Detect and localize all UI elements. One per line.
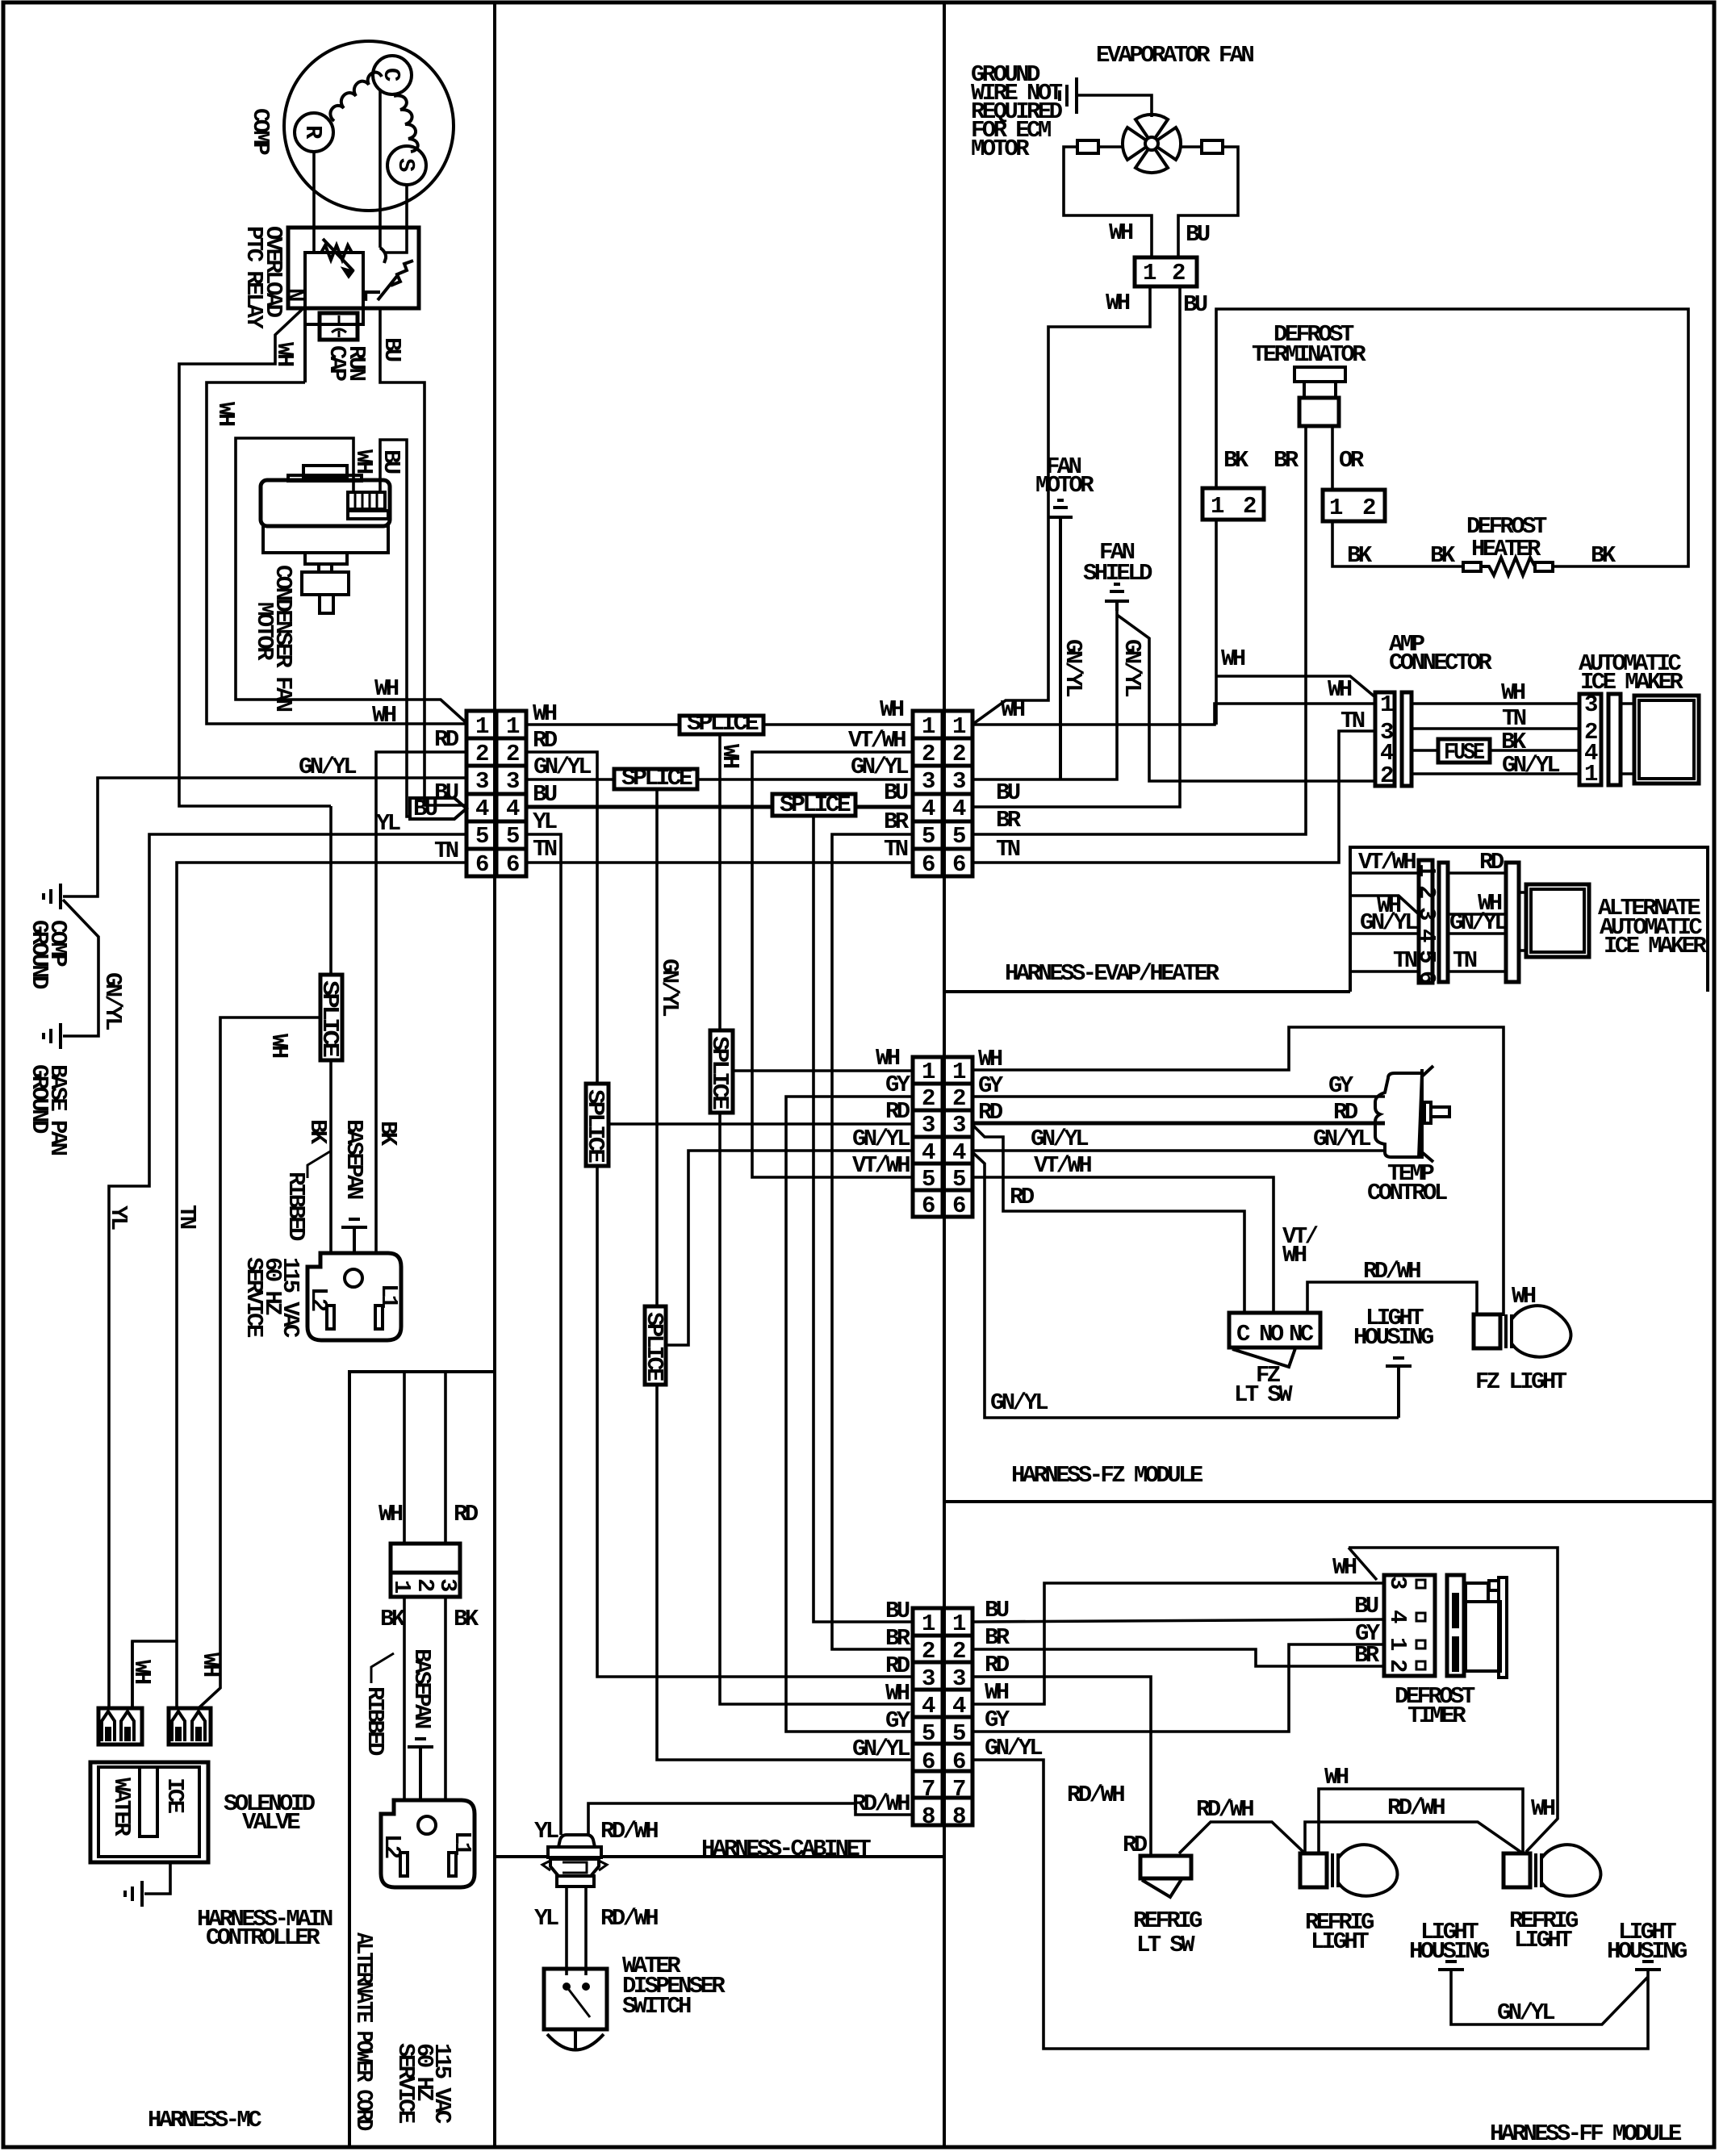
svg-text:5: 5	[1413, 950, 1440, 963]
wire GY FZ pin2 to temp control	[972, 1095, 1385, 1098]
plug screw hole	[345, 1269, 362, 1287]
solenoid valve outer box	[90, 1762, 208, 1862]
svg-text:HARNESS-MC: HARNESS-MC	[148, 2107, 261, 2133]
svg-text:SPLICE: SPLICE	[582, 1089, 609, 1163]
alt plug screw hole	[418, 1816, 436, 1834]
heater 2-pin connector right	[1323, 490, 1385, 521]
svg-text:BK: BK	[1223, 447, 1249, 474]
alt ice maker connector strip	[1419, 860, 1432, 983]
svg-text:BK: BK	[1347, 542, 1373, 569]
svg-text:GN/YL: GN/YL	[990, 1389, 1048, 1416]
condenser fan motor terminal block	[348, 492, 385, 509]
wire plugA right pin	[131, 1641, 134, 1708]
svg-text:REFRIG: REFRIG	[1133, 1907, 1202, 1934]
svg-text:TN: TN	[996, 836, 1020, 863]
basepan ground mark	[349, 1218, 360, 1221]
splice WH vertical	[710, 1030, 733, 1113]
svg-text:BU: BU	[533, 781, 557, 808]
plug connector A	[98, 1708, 142, 1744]
alt ice maker stubs	[1519, 891, 1526, 894]
svg-text:BR: BR	[996, 807, 1022, 834]
wire BK heater loop	[1216, 309, 1688, 566]
AMP connector strip	[1375, 692, 1395, 786]
wire WH condenser loop	[236, 438, 466, 723]
svg-text:BU: BU	[885, 1598, 910, 1624]
condenser fan motor plate	[288, 475, 362, 481]
svg-text:RD: RD	[533, 727, 558, 754]
fan shield ground symbol	[1114, 583, 1120, 586]
svg-text:RD/WH: RD/WH	[1196, 1796, 1253, 1823]
svg-text:5: 5	[922, 1166, 935, 1193]
splice RD vertical	[586, 1084, 609, 1166]
defrost heater resistor	[1535, 562, 1553, 571]
svg-text:L2: L2	[379, 1834, 405, 1858]
svg-text:WH: WH	[372, 702, 396, 729]
wire GN/YL shield to row3	[972, 611, 1117, 779]
svg-text:5: 5	[952, 1720, 965, 1747]
svg-text:RIBBED: RIBBED	[282, 1172, 309, 1241]
svg-text:WH: WH	[1109, 219, 1133, 246]
solenoid ground wire	[144, 1862, 170, 1894]
svg-text:GN/YL: GN/YL	[1502, 752, 1559, 779]
wire BK alt left	[403, 1597, 406, 1800]
fan left resistor	[1077, 140, 1098, 153]
svg-text:RD/WH: RD/WH	[852, 1790, 910, 1817]
refrig light switch box	[1140, 1856, 1191, 1878]
svg-text:SPLICE: SPLICE	[780, 792, 851, 818]
svg-text:BU: BU	[378, 449, 404, 474]
svg-text:L2: L2	[305, 1287, 332, 1311]
svg-text:HARNESS-CABINET: HARNESS-CABINET	[701, 1836, 871, 1862]
spade terminal	[172, 1711, 185, 1741]
wire TN branch to plug A	[132, 1641, 177, 1708]
wire BU condenser	[380, 440, 410, 817]
wire R terminal down	[312, 152, 316, 253]
wire BK alt right	[444, 1597, 447, 1800]
wire WH relay inner down-left	[303, 324, 307, 339]
svg-text:BK: BK	[1591, 542, 1617, 569]
svg-text:3: 3	[475, 768, 488, 795]
wire WH AMP to ice maker	[1412, 702, 1579, 705]
svg-text:BU: BU	[1354, 1593, 1378, 1619]
wire RD	[1448, 871, 1506, 875]
wire RD/WH FF pin8 to dispenser	[588, 1803, 913, 1835]
svg-text:MOTOR: MOTOR	[1035, 472, 1094, 499]
svg-text:WH: WH	[978, 1046, 1002, 1072]
wire WH fan to C2 pin1	[973, 286, 1150, 724]
svg-text:GN/YL: GN/YL	[852, 1126, 910, 1152]
svg-text:GY: GY	[1328, 1072, 1354, 1099]
wire C terminal down	[379, 90, 382, 248]
evaporator fan symbol	[1145, 137, 1158, 150]
svg-text:LT SW: LT SW	[1136, 1932, 1195, 1958]
svg-text:GN/YL: GN/YL	[1031, 1126, 1088, 1152]
svg-text:GROUND: GROUND	[26, 1064, 52, 1134]
svg-text:WH: WH	[212, 402, 239, 426]
svg-text:TIMER: TIMER	[1407, 1703, 1466, 1729]
svg-text:YL: YL	[105, 1205, 132, 1230]
PTC arrow	[323, 239, 353, 271]
fuse box	[1438, 739, 1490, 763]
plug prong L1	[375, 1306, 383, 1329]
wire WH row1 to C2 with splice	[526, 723, 680, 726]
svg-text:NO: NO	[1259, 1321, 1284, 1347]
wire S terminal down	[386, 185, 407, 253]
svg-text:RD/WH: RD/WH	[1067, 1782, 1124, 1808]
wire WH timer upper branch	[1349, 1548, 1558, 1852]
wire RD row2 drop	[526, 752, 597, 1084]
main power cord plug	[307, 1253, 401, 1340]
wire BK heater to connector	[1332, 521, 1463, 566]
svg-text:GN/YL: GN/YL	[1497, 1999, 1554, 2026]
svg-text:GN/YL: GN/YL	[851, 754, 908, 780]
relay inner box	[305, 253, 363, 324]
wire RD/WH light1 to light2	[1305, 1822, 1523, 1853]
wire GN/YL	[1448, 932, 1506, 935]
wire TN	[1448, 970, 1506, 973]
svg-text:RD: RD	[985, 1652, 1010, 1678]
svg-text:GN/YL: GN/YL	[299, 754, 356, 780]
wire GN/YL AMP to ice maker	[1412, 772, 1579, 775]
AMP mating strip	[1402, 692, 1412, 786]
wire RD splice to FZ pin3	[609, 1122, 913, 1126]
svg-text:SPLICE: SPLICE	[706, 1036, 733, 1109]
wire RD down to FF pin3	[597, 1166, 913, 1677]
svg-text:2: 2	[922, 1085, 935, 1112]
svg-text:2: 2	[506, 741, 519, 767]
wire RD/WH to switch	[584, 1886, 588, 1975]
wire RD alt cord	[444, 1372, 447, 1544]
connector main 6-pin C1	[466, 711, 526, 876]
svg-text:SPLICE: SPLICE	[641, 1312, 667, 1381]
svg-text:RD: RD	[1333, 1099, 1358, 1126]
svg-text:LIGHT: LIGHT	[1311, 1928, 1369, 1955]
svg-text:6: 6	[922, 1193, 935, 1219]
svg-text:GN/YL: GN/YL	[1360, 909, 1417, 936]
svg-text:RD: RD	[1010, 1184, 1035, 1210]
svg-text:RIBBED: RIBBED	[362, 1686, 388, 1756]
compressor terminal R	[295, 113, 333, 152]
wire VT/WH C2 pin2	[752, 752, 913, 1177]
svg-text:WH: WH	[876, 1045, 900, 1072]
svg-text:L1: L1	[449, 1831, 475, 1856]
wire WH FZ pin1 to FZ light	[972, 1027, 1504, 1316]
svg-text:MOTOR: MOTOR	[251, 602, 278, 661]
condenser fan motor cap	[303, 466, 347, 478]
svg-text:BK: BK	[380, 1606, 406, 1632]
svg-text:FZ LIGHT: FZ LIGHT	[1475, 1368, 1567, 1395]
wire GN/YL FZ pin4 to temp control	[972, 1149, 1385, 1152]
wire RD FZ pin3 branch to switch	[972, 1125, 1244, 1313]
svg-text:COMP: COMP	[247, 108, 274, 155]
svg-text:WH: WH	[533, 700, 557, 727]
svg-text:RD: RD	[885, 1098, 910, 1125]
plug connector B	[169, 1708, 211, 1744]
svg-text:WH: WH	[379, 1501, 403, 1527]
svg-text:BU: BU	[996, 779, 1020, 806]
svg-text:LIGHT: LIGHT	[1514, 1927, 1572, 1953]
svg-text:BASEPAN: BASEPAN	[408, 1648, 435, 1728]
svg-text:TN: TN	[1453, 947, 1477, 974]
alt plug prong L2	[400, 1853, 408, 1876]
svg-text:3: 3	[1413, 907, 1440, 920]
svg-text:3: 3	[506, 768, 519, 795]
wire WH down to FF pin4	[720, 1113, 913, 1704]
svg-text:2: 2	[1413, 885, 1440, 898]
svg-text:WH: WH	[266, 1034, 292, 1058]
wire YL to switch	[565, 1886, 568, 1975]
svg-text:CONNECTOR: CONNECTOR	[1389, 650, 1492, 676]
svg-text:WH: WH	[350, 449, 377, 474]
wire RD FF pin3 to refrig switch	[972, 1677, 1151, 1856]
svg-text:BU: BU	[434, 779, 458, 806]
svg-text:SWITCH: SWITCH	[622, 1993, 691, 2020]
svg-text:7: 7	[922, 1776, 935, 1803]
ribbed bracket alt	[371, 1653, 394, 1683]
svg-text:GN/YL: GN/YL	[852, 1736, 910, 1762]
svg-text:RD/WH: RD/WH	[1363, 1258, 1420, 1285]
svg-text:6: 6	[922, 1749, 935, 1775]
wire RD FZ pin3 to temp control	[972, 1122, 1385, 1126]
svg-text:GN/YL: GN/YL	[985, 1735, 1042, 1761]
ice maker connector	[1579, 694, 1601, 785]
svg-text:EVAPORATOR FAN: EVAPORATOR FAN	[1096, 42, 1253, 69]
solenoid valve slot	[140, 1767, 157, 1836]
wire YL row5 to water dispenser	[526, 834, 561, 1835]
refrig light 1 bulb	[1300, 1853, 1327, 1887]
wire GN/YL down to FF pin6	[657, 1385, 913, 1760]
svg-text:3: 3	[434, 1578, 461, 1591]
wire WH alt cord	[403, 1372, 406, 1544]
wire RD/WH switch to FZ light	[1307, 1282, 1477, 1316]
water dispenser connector bell	[558, 1835, 595, 1847]
wire BU fan to C2 pin4	[972, 286, 1180, 807]
column divider left/middle	[493, 2, 496, 2147]
svg-text:CAP: CAP	[324, 345, 350, 382]
compressor run winding coil	[330, 73, 382, 121]
svg-text:RD/WH: RD/WH	[600, 1818, 658, 1845]
svg-text:3: 3	[1584, 692, 1597, 718]
wire BK connector to AMP	[1215, 520, 1218, 725]
svg-text:GY: GY	[885, 1072, 911, 1098]
svg-text:GN/YL: GN/YL	[1119, 639, 1145, 696]
svg-text:ALTERNATE POWER CORD: ALTERNATE POWER CORD	[350, 1932, 377, 2131]
svg-text:6: 6	[922, 851, 935, 878]
wire GN/YL ground jumper	[63, 900, 98, 1036]
alt plug prong L1	[449, 1853, 456, 1876]
svg-text:TERMINATOR: TERMINATOR	[1252, 341, 1366, 368]
svg-text:RD/WH: RD/WH	[1387, 1795, 1445, 1821]
svg-text:SERVICE: SERVICE	[392, 2043, 419, 2124]
svg-text:FUSE: FUSE	[1444, 739, 1485, 766]
svg-text:2: 2	[1243, 493, 1256, 520]
wire GN/YL FF pin6 to housing2	[972, 1760, 1648, 2049]
water dispenser connector collar	[557, 1876, 594, 1886]
svg-text:OR: OR	[1339, 447, 1365, 474]
wire TN AMP to ice maker	[1412, 727, 1579, 730]
svg-text:3: 3	[922, 1112, 935, 1139]
svg-text:BU: BU	[884, 779, 908, 806]
wire GN/YL FZ pin4 branch down	[972, 1152, 1399, 1418]
svg-text:GN/YL: GN/YL	[99, 972, 126, 1030]
comp ground symbol	[59, 884, 62, 909]
svg-text:YL: YL	[376, 810, 400, 837]
wire VT/WH	[1350, 871, 1419, 875]
temp control symbol	[1375, 1073, 1422, 1157]
svg-text:WH: WH	[271, 342, 298, 366]
svg-text:WH: WH	[1106, 290, 1130, 316]
svg-text:3: 3	[922, 1665, 935, 1692]
defrost terminator body	[1294, 367, 1345, 382]
condenser fan motor lower body	[263, 526, 388, 553]
base pan ground symbol	[59, 1023, 62, 1049]
svg-text:3: 3	[952, 1665, 965, 1692]
svg-text:ICE MAKER: ICE MAKER	[1604, 933, 1707, 959]
refrig light 2 bulb	[1504, 1853, 1530, 1887]
svg-text:WH: WH	[374, 675, 399, 702]
svg-text:2: 2	[1172, 260, 1185, 286]
refrig switch blade	[1142, 1879, 1182, 1897]
svg-text:6: 6	[1413, 971, 1440, 984]
compressor terminal S	[387, 146, 426, 185]
wire WH to splice	[199, 1017, 320, 1708]
svg-text:2: 2	[952, 1638, 965, 1665]
wire TN row6 to C2	[526, 861, 913, 864]
3-pin connector alt cord	[391, 1544, 460, 1597]
ice maker body	[1634, 696, 1699, 783]
svg-text:2: 2	[1384, 1659, 1411, 1672]
defrost timer connector	[1384, 1575, 1435, 1676]
svg-text:YL: YL	[534, 1905, 558, 1932]
ice maker stubs	[1621, 702, 1634, 705]
svg-text:BK: BK	[374, 1121, 401, 1147]
svg-text:WH: WH	[1531, 1795, 1555, 1822]
svg-text:7: 7	[952, 1776, 965, 1803]
water dispenser switch arc	[574, 2029, 577, 2049]
column divider middle/right	[943, 2, 946, 2147]
svg-text:VALVE: VALVE	[242, 1809, 300, 1836]
svg-text:HARNESS-FZ MODULE: HARNESS-FZ MODULE	[1011, 1462, 1203, 1489]
svg-text:WH: WH	[717, 744, 743, 768]
svg-text:RD: RD	[434, 726, 459, 753]
connector evap 6-pin C2	[913, 711, 972, 876]
svg-text:WH: WH	[1324, 1764, 1349, 1790]
svg-text:TN: TN	[533, 836, 557, 863]
wire GY FF pin5 to timer	[972, 1644, 1384, 1732]
svg-text:WH: WH	[1221, 646, 1245, 672]
ribbed bracket	[307, 1151, 330, 1178]
svg-text:RD: RD	[885, 1653, 910, 1679]
svg-text:3: 3	[1384, 1576, 1411, 1589]
svg-text:2: 2	[1380, 763, 1393, 789]
wire BU splice drop to FF pin1	[813, 816, 913, 1622]
wire BK splice to plug	[329, 1060, 333, 1253]
overload PTC relay box	[288, 228, 419, 308]
svg-text:SPLICE: SPLICE	[687, 710, 759, 737]
svg-text:WH: WH	[880, 696, 904, 723]
wire YL pin5 left	[109, 834, 466, 1708]
svg-text:TN: TN	[174, 1205, 200, 1229]
wire GN/YL	[1350, 932, 1419, 935]
wire GN/YL shield to AMP pin2	[1117, 615, 1375, 781]
svg-text:8: 8	[952, 1803, 965, 1830]
wire BK with fuse	[1412, 749, 1438, 752]
svg-text:CONTROLLER: CONTROLLER	[206, 1924, 320, 1951]
svg-text:5: 5	[922, 823, 935, 850]
svg-text:GN/YL: GN/YL	[656, 959, 683, 1016]
wire BU FF pin1 to timer	[972, 1619, 1384, 1622]
water dispenser switch box	[544, 1969, 607, 2029]
svg-text:2: 2	[475, 741, 488, 767]
svg-text:LT SW: LT SW	[1234, 1381, 1293, 1408]
divider fz/ff section	[944, 1500, 1714, 1503]
svg-text:MOTOR: MOTOR	[971, 136, 1030, 162]
svg-text:HARNESS-FF MODULE: HARNESS-FF MODULE	[1490, 2120, 1682, 2147]
svg-text:BASEPAN: BASEPAN	[341, 1119, 367, 1199]
svg-text:VT/WH: VT/WH	[1034, 1152, 1091, 1179]
wire GN/YL splice branch to FZ pin4	[666, 1151, 913, 1345]
svg-text:SPLICE: SPLICE	[621, 765, 692, 792]
alternate ice maker box	[1350, 847, 1708, 992]
svg-text:WATER: WATER	[108, 1778, 135, 1836]
splice GN/YL vertical	[645, 1306, 666, 1385]
light housing 1 ground	[1445, 1960, 1457, 1963]
wire BR terminator to C2 pin5	[972, 426, 1306, 834]
svg-text:2: 2	[922, 741, 935, 767]
relay switch blade	[378, 261, 413, 300]
svg-text:NC: NC	[1289, 1321, 1314, 1347]
svg-text:BU: BU	[413, 796, 437, 822]
compressor terminal C	[373, 56, 412, 94]
wire BU flag	[410, 798, 466, 819]
wire GY FZ pin2 to FF pin5	[786, 1097, 913, 1732]
svg-text:HEATER: HEATER	[1471, 536, 1541, 562]
ice maker mating strip	[1608, 694, 1621, 785]
wire BR FF pin2 to timer	[972, 1649, 1384, 1666]
fan right resistor	[1202, 140, 1223, 153]
svg-text:3: 3	[922, 768, 935, 795]
wire WH relay N diagonal	[179, 308, 331, 806]
evap fan 2-pin connector	[1135, 257, 1197, 286]
svg-text:HOUSING: HOUSING	[1353, 1324, 1433, 1351]
wire GN/YL to grounds	[63, 778, 466, 896]
wire TN pin6 left	[177, 863, 466, 1708]
svg-text:GN/YL: GN/YL	[1060, 639, 1086, 696]
svg-text:8: 8	[922, 1803, 935, 1830]
svg-text:VT/WH: VT/WH	[852, 1152, 910, 1179]
svg-text:WH: WH	[1328, 676, 1352, 703]
basepan ground mark alt	[415, 1737, 426, 1740]
connector FF 8-pin	[913, 1608, 972, 1825]
wire WH splice drop	[718, 734, 721, 1030]
solenoid ground symbol	[140, 1881, 144, 1907]
wire WH	[1448, 913, 1506, 916]
svg-text:GN/YL: GN/YL	[533, 754, 591, 780]
svg-text:TN: TN	[1340, 708, 1365, 734]
spade terminal	[102, 1711, 115, 1741]
wire TN row6 to AMP pin3	[972, 731, 1375, 863]
splice vertical main cord	[320, 975, 342, 1060]
heater 2-pin connector left	[1202, 488, 1264, 520]
wire WH row1 to AMP pin1	[972, 704, 1375, 725]
svg-text:5: 5	[952, 1166, 965, 1193]
run cap box	[320, 313, 358, 340]
svg-text:ICE: ICE	[161, 1778, 188, 1814]
FZ light housing ground	[1393, 1356, 1404, 1360]
svg-text:BK: BK	[1430, 542, 1456, 569]
relay switch contact hook	[380, 248, 386, 263]
svg-text:BU: BU	[985, 1597, 1009, 1623]
